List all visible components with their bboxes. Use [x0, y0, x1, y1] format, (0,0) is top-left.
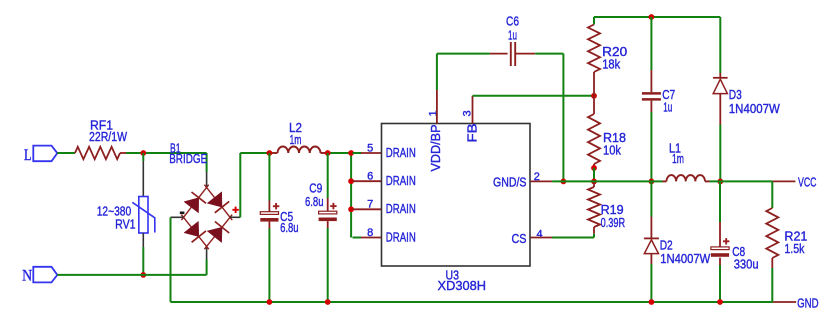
- svg-text:8: 8: [367, 227, 373, 239]
- svg-text:GND/S: GND/S: [493, 175, 527, 190]
- svg-text:VCC: VCC: [798, 175, 817, 190]
- svg-text:C6: C6: [506, 13, 519, 28]
- svg-text:1.5k: 1.5k: [784, 241, 804, 256]
- svg-text:10k: 10k: [603, 143, 621, 158]
- svg-text:DRAIN: DRAIN: [386, 173, 416, 188]
- svg-text:BRIDGE: BRIDGE: [169, 151, 207, 166]
- svg-text:22R/1W: 22R/1W: [89, 129, 127, 144]
- svg-text:330u: 330u: [734, 256, 759, 271]
- svg-text:FB: FB: [465, 123, 480, 142]
- svg-text:1m: 1m: [672, 151, 684, 166]
- svg-text:1N4007W: 1N4007W: [660, 251, 710, 266]
- svg-text:N: N: [22, 268, 32, 285]
- svg-text:1N4007W: 1N4007W: [729, 101, 780, 116]
- svg-text:6.8u: 6.8u: [280, 220, 299, 235]
- svg-text:1u: 1u: [663, 100, 672, 115]
- svg-text:0.39R: 0.39R: [601, 215, 626, 230]
- svg-text:6.8u: 6.8u: [305, 194, 324, 209]
- svg-text:VDD/BP: VDD/BP: [428, 124, 443, 171]
- svg-text:5: 5: [367, 142, 373, 154]
- svg-text:DRAIN: DRAIN: [386, 201, 416, 216]
- svg-text:CS: CS: [512, 231, 527, 246]
- svg-text:RV1: RV1: [115, 216, 136, 231]
- svg-text:XD308H: XD308H: [438, 278, 487, 293]
- svg-text:18k: 18k: [602, 56, 620, 71]
- svg-text:DRAIN: DRAIN: [386, 145, 416, 160]
- svg-text:6: 6: [367, 171, 373, 183]
- svg-text:1u: 1u: [508, 27, 517, 42]
- svg-text:DRAIN: DRAIN: [386, 229, 416, 244]
- svg-text:4: 4: [537, 228, 543, 240]
- svg-text:1m: 1m: [290, 132, 302, 147]
- svg-text:D3: D3: [729, 87, 742, 102]
- svg-text:GND: GND: [797, 296, 819, 311]
- svg-text:L: L: [24, 147, 32, 164]
- svg-text:7: 7: [367, 199, 373, 211]
